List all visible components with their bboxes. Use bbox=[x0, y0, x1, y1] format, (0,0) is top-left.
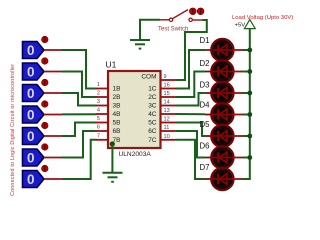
svg-text:9: 9 bbox=[164, 74, 167, 80]
svg-text:0: 0 bbox=[27, 107, 35, 122]
wire from logicstate 7 to pin 7B bbox=[62, 140, 97, 179]
svg-text:Load Voltag (Upto 30V): Load Voltag (Upto 30V) bbox=[232, 15, 293, 21]
svg-text:D2: D2 bbox=[200, 59, 210, 68]
svg-text:0: 0 bbox=[27, 129, 35, 144]
power terminal +5V bbox=[235, 20, 256, 29]
logic state input P3 bbox=[23, 79, 63, 101]
wire IC to ground bbox=[111, 144, 113, 173]
svg-text:D7: D7 bbox=[200, 163, 210, 172]
logic state input P1 bbox=[23, 36, 63, 58]
svg-text:5: 5 bbox=[97, 116, 100, 122]
svg-text:D1: D1 bbox=[200, 36, 210, 45]
svg-text:2C: 2C bbox=[148, 94, 157, 101]
pin 12 5C stub bbox=[148, 117, 176, 127]
LED D5 bbox=[200, 120, 253, 147]
svg-text:1B: 1B bbox=[113, 86, 121, 93]
pin 11 6C stub bbox=[148, 125, 176, 135]
svg-text:0: 0 bbox=[27, 86, 35, 101]
svg-text:U1: U1 bbox=[106, 60, 117, 70]
pin 6B stub bbox=[96, 125, 120, 136]
svg-text:2B: 2B bbox=[113, 94, 121, 101]
wire pin15 to LED D2 bbox=[176, 72, 205, 98]
svg-text:4C: 4C bbox=[148, 111, 157, 118]
svg-text:13: 13 bbox=[164, 108, 170, 114]
svg-text:D3: D3 bbox=[200, 81, 210, 90]
svg-text:3: 3 bbox=[97, 99, 100, 105]
test switch SW1 bbox=[158, 8, 204, 33]
+5V rail wire bbox=[242, 29, 250, 179]
ground (IC) bbox=[103, 173, 123, 182]
svg-text:3C: 3C bbox=[148, 103, 157, 110]
wire pin12 to LED D5 bbox=[176, 123, 205, 137]
logic state input P4 bbox=[23, 101, 63, 123]
svg-text:6: 6 bbox=[97, 125, 100, 131]
svg-text:7: 7 bbox=[97, 133, 100, 139]
op IC U1 ULN2003A body bbox=[106, 60, 161, 159]
LED D6 bbox=[200, 142, 253, 169]
pin 2B stub bbox=[96, 91, 120, 102]
logic state input P6 bbox=[23, 144, 63, 166]
pin 9 COM stub bbox=[141, 74, 176, 81]
LED D1 bbox=[200, 36, 253, 61]
wire from logicstate 6 to pin 6B bbox=[62, 131, 97, 158]
svg-text:Test Switch: Test Switch bbox=[158, 27, 188, 33]
svg-text:+5V: +5V bbox=[235, 23, 246, 29]
pin 4B stub bbox=[96, 108, 120, 119]
svg-text:5C: 5C bbox=[148, 120, 157, 127]
svg-text:15: 15 bbox=[164, 91, 170, 97]
wire from logicstate 1 to pin 1B bbox=[62, 50, 97, 89]
svg-text:14: 14 bbox=[164, 100, 170, 106]
wire pin14 to LED D3 bbox=[176, 93, 205, 106]
wire pin11 to LED D6 bbox=[176, 131, 205, 158]
pin 13 4C stub bbox=[148, 108, 176, 118]
wire switch to ground bbox=[140, 20, 160, 40]
wire from logicstate 4 to pin 4B bbox=[62, 113, 97, 115]
wire COM pin9 to test switch bbox=[176, 20, 207, 80]
svg-text:Connected to Logic Digital Cir: Connected to Logic Digital Circuit or mi… bbox=[10, 64, 16, 196]
LED D2 bbox=[200, 59, 253, 83]
svg-text:5B: 5B bbox=[113, 120, 121, 127]
pin 10 7C stub bbox=[148, 134, 176, 144]
pin 1B stub bbox=[96, 82, 120, 93]
logic state input P7 bbox=[23, 165, 63, 187]
svg-text:D4: D4 bbox=[200, 101, 211, 110]
svg-text:3B: 3B bbox=[113, 103, 121, 110]
wire pin10 to LED D7 bbox=[176, 140, 205, 179]
svg-text:0: 0 bbox=[27, 64, 35, 79]
logic state input P5 bbox=[23, 122, 63, 144]
wire from logicstate 3 to pin 3B bbox=[62, 93, 97, 106]
LED D4 bbox=[200, 101, 253, 126]
pin 15 2C stub bbox=[148, 91, 176, 101]
wire pin13 to LED D4 bbox=[176, 113, 205, 115]
LED D3 bbox=[200, 81, 253, 105]
svg-text:1: 1 bbox=[97, 82, 100, 88]
svg-text:6C: 6C bbox=[148, 128, 157, 135]
wire from logicstate 2 to pin 2B bbox=[62, 72, 97, 98]
svg-text:16: 16 bbox=[164, 83, 170, 89]
svg-text:12: 12 bbox=[164, 117, 170, 123]
node junction at IC pin 8 / GND bbox=[110, 141, 115, 146]
svg-text:COM: COM bbox=[141, 74, 156, 81]
svg-text:0: 0 bbox=[27, 43, 35, 58]
svg-text:2: 2 bbox=[97, 91, 100, 97]
wire from logicstate 5 to pin 5B bbox=[62, 123, 97, 137]
svg-text:0: 0 bbox=[27, 150, 35, 165]
svg-text:4B: 4B bbox=[113, 111, 121, 118]
svg-text:D6: D6 bbox=[200, 142, 210, 151]
ground (test switch) bbox=[130, 40, 150, 49]
svg-text:11: 11 bbox=[164, 125, 170, 131]
pin 14 3C stub bbox=[148, 100, 176, 110]
svg-text:0: 0 bbox=[27, 172, 35, 187]
pin 16 1C stub bbox=[148, 83, 176, 93]
pin 5B stub bbox=[96, 116, 120, 127]
logic state input P2 bbox=[23, 58, 63, 80]
svg-text:10: 10 bbox=[164, 134, 170, 140]
pin 3B stub bbox=[96, 99, 120, 110]
svg-text:ULN2003A: ULN2003A bbox=[119, 151, 152, 158]
svg-text:7C: 7C bbox=[148, 137, 157, 144]
svg-text:D5: D5 bbox=[200, 120, 211, 129]
LED D7 bbox=[200, 163, 243, 190]
pin 7B stub bbox=[96, 133, 120, 144]
svg-text:4: 4 bbox=[97, 108, 100, 114]
wire pin16 to LED D1 bbox=[176, 50, 205, 89]
svg-text:6B: 6B bbox=[113, 128, 121, 135]
svg-text:1C: 1C bbox=[148, 86, 157, 93]
